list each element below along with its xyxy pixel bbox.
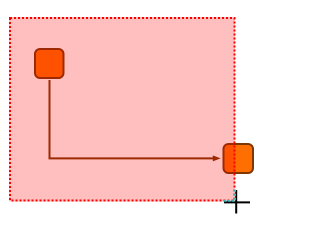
selection rubber-band dotted red border: [10, 18, 235, 201]
snap highlight horizontal segment (cyan dotted): [224, 200, 235, 202]
snap highlight vertical segment (cyan dotted): [234, 190, 236, 202]
wire: arrow shaft from N1 down then right to N2: [50, 80, 214, 158]
node N1 (orange rounded square, top-left): [35, 49, 64, 78]
node N2 (orange rounded square, right, straddling selection edge): [224, 144, 254, 173]
crosshair cursor vertical bar: [235, 190, 237, 214]
arrowhead at N2: [213, 155, 221, 161]
selection rubber-band translucent red fill: [9, 17, 235, 202]
crosshair cursor horizontal bar: [224, 201, 250, 203]
